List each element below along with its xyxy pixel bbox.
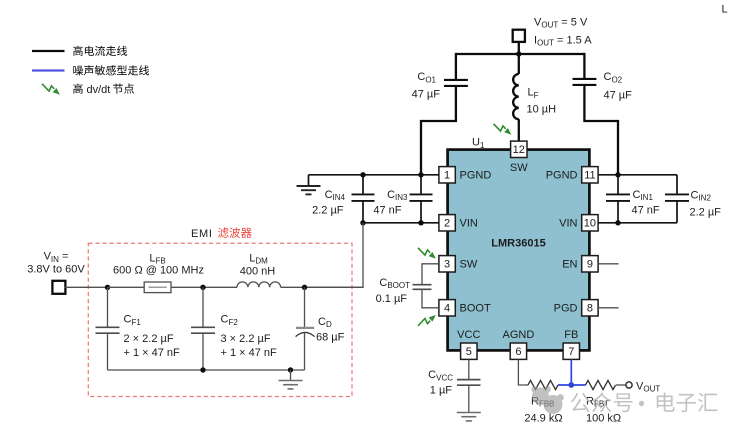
pin 5 box <box>461 343 477 359</box>
legend label 高 dv/dt 节点 <box>73 84 83 94</box>
svg-text:VIN: VIN <box>460 218 478 230</box>
svg-text:SW: SW <box>460 259 478 271</box>
node CF1 top junction <box>105 285 110 290</box>
wire VIN riser from EMI filter <box>305 223 364 287</box>
svg-text:3: 3 <box>444 258 450 270</box>
wire pin 11 PGND rail <box>598 174 677 176</box>
svg-text:dv/dt: dv/dt <box>87 84 111 96</box>
svg-text:47 nF: 47 nF <box>632 205 660 217</box>
node CF2 bottom junction <box>200 367 205 372</box>
capacitor CF2 <box>202 287 204 327</box>
node CIN3 bottom junction <box>418 220 423 225</box>
wire RFBT to VOUT terminal <box>616 384 626 386</box>
wire CO2 top <box>583 53 585 78</box>
svg-text:PGD: PGD <box>554 303 578 315</box>
svg-text:0.1 µF: 0.1 µF <box>376 293 408 305</box>
node VOUT junction <box>516 51 521 56</box>
capacitor CVCC <box>457 379 481 381</box>
wire LFB to CF2 node <box>171 286 237 288</box>
node CIN4 bottom junction <box>360 220 365 225</box>
svg-text:47 µF: 47 µF <box>604 90 633 102</box>
wire CVCC to ground <box>468 385 470 412</box>
ground in EMI filter <box>290 370 292 380</box>
wire pin 1 PGND rail <box>309 174 439 176</box>
high dv/dt arrow at pin 3 SW <box>418 248 436 259</box>
legend high-current trace sample line <box>32 50 65 52</box>
pin 10 box <box>582 215 598 231</box>
node CIN4 top junction <box>360 172 365 177</box>
terminal VOUT open circle <box>626 382 632 388</box>
op-amp U1 LMR36015 body <box>448 150 590 351</box>
wire pin 2 VIN rail <box>363 222 439 224</box>
pin 7 box <box>563 343 579 359</box>
wire pin 8 PGD stub <box>598 307 618 309</box>
pin 9 box <box>582 256 598 272</box>
wire CO2 bottom to PGND rail <box>584 85 618 175</box>
svg-text:PGND: PGND <box>460 170 492 182</box>
inductor LF coil <box>513 74 519 119</box>
wire VIN terminal to filter <box>65 286 108 288</box>
svg-text:10 µH: 10 µH <box>527 104 557 116</box>
svg-text:11: 11 <box>584 169 595 181</box>
legend high dv/dt arrow icon <box>42 84 60 95</box>
node CIN3 top junction <box>418 172 423 177</box>
node CIN1 top junction <box>615 172 620 177</box>
terminal VIN square <box>52 281 65 294</box>
svg-text:2 × 2.2 µF: 2 × 2.2 µF <box>124 333 174 345</box>
svg-text:L: L <box>722 4 728 16</box>
inductor LDM coil <box>237 282 281 287</box>
wire pin 9 EN stub <box>598 263 618 265</box>
svg-text:4: 4 <box>444 302 450 314</box>
svg-text:3 × 2.2 µF: 3 × 2.2 µF <box>221 333 271 345</box>
svg-text:10: 10 <box>584 217 596 229</box>
watermark text <box>571 392 633 412</box>
resistor RFBB <box>528 380 558 389</box>
EMI filter dashed box <box>88 243 352 396</box>
wire VOUT bus <box>456 53 585 55</box>
watermark logo blob <box>531 386 564 414</box>
legend noise-sensitive trace sample line <box>32 69 65 71</box>
svg-text:VIN: VIN <box>559 218 577 230</box>
svg-text:LMR36015: LMR36015 <box>491 237 545 249</box>
svg-text:+ 1 × 47 nF: + 1 × 47 nF <box>124 347 181 359</box>
svg-text:2: 2 <box>444 217 450 229</box>
capacitor CIN2 <box>676 175 678 194</box>
svg-text:AGND: AGND <box>503 329 535 341</box>
wire CO1 top <box>455 53 457 79</box>
svg-text:400 nH: 400 nH <box>240 266 276 278</box>
svg-text:VCC: VCC <box>457 329 480 341</box>
high dv/dt arrow at pin 4 BOOT <box>418 315 436 326</box>
wire pin 10 VIN rail <box>598 222 677 224</box>
svg-text:47 µF: 47 µF <box>412 89 441 101</box>
wire terminal to VOUT bus <box>518 42 520 54</box>
svg-text:EMI: EMI <box>191 228 213 240</box>
capacitor CO2 <box>573 78 597 80</box>
high dv/dt arrow at SW node <box>494 124 512 135</box>
pin 12 box <box>511 141 527 157</box>
terminal VOUT square <box>513 30 525 42</box>
svg-text:1 µF: 1 µF <box>430 385 453 397</box>
svg-text:24.9 kΩ: 24.9 kΩ <box>524 412 562 424</box>
capacitor CD polarized <box>304 287 306 327</box>
svg-text:FB: FB <box>564 329 578 341</box>
node ground tap junction <box>288 367 293 372</box>
capacitor CF1 <box>107 287 109 327</box>
svg-text:6: 6 <box>515 346 521 358</box>
pin 8 box <box>582 300 598 316</box>
pin 4 box <box>439 300 455 316</box>
svg-text:2.2 µF: 2.2 µF <box>312 205 344 217</box>
wire to LFB <box>108 286 145 288</box>
svg-text:5: 5 <box>466 346 472 358</box>
resistor RFBT <box>586 380 616 389</box>
legend label 噪声敏感型走线 <box>73 65 149 75</box>
pin 11 box <box>582 167 598 183</box>
wire FB blue from pin 7 <box>570 360 572 385</box>
svg-text:1: 1 <box>444 169 450 181</box>
svg-text:+ 1 × 47 nF: + 1 × 47 nF <box>221 347 278 359</box>
svg-text:12: 12 <box>513 144 525 156</box>
svg-text:PGND: PGND <box>546 170 578 182</box>
wire pin 5 VCC to CVCC <box>468 360 470 380</box>
svg-text:600 Ω @ 100 MHz: 600 Ω @ 100 MHz <box>113 265 204 277</box>
wire EMI bottom rail <box>108 369 305 371</box>
pin 6 box <box>510 343 526 359</box>
wire pin 6 AGND to RFBB <box>518 360 528 385</box>
pin 3 box <box>439 256 455 272</box>
wire LDM to riser <box>281 286 363 288</box>
svg-text:100 kΩ: 100 kΩ <box>586 412 621 424</box>
capacitor CIN1 <box>617 175 619 194</box>
svg-text:EN: EN <box>562 259 577 271</box>
svg-text:7: 7 <box>568 346 574 358</box>
wire CBOOT to pin 4 BOOT <box>422 289 439 308</box>
wire LF top <box>518 54 520 74</box>
wire LF bottom to pin 12 <box>518 119 520 141</box>
pin 2 box <box>439 215 455 231</box>
svg-text:SW: SW <box>510 162 528 174</box>
node CD top junction <box>302 285 307 290</box>
svg-text:2.2 µF: 2.2 µF <box>690 207 722 219</box>
wire CO1 bottom to PGND rail <box>421 86 456 175</box>
ground at PGND rail <box>308 175 310 186</box>
wire pin 3 SW to CBOOT <box>422 264 439 285</box>
node CF2 top junction <box>200 285 205 290</box>
ground below CVCC <box>457 412 481 414</box>
legend label 高电流走线 <box>73 46 127 56</box>
svg-text:3.8V to 60V: 3.8V to 60V <box>27 264 85 276</box>
node FB junction blue <box>568 382 574 388</box>
svg-text:BOOT: BOOT <box>460 303 491 315</box>
svg-text:9: 9 <box>587 258 593 270</box>
pin 1 box <box>439 167 455 183</box>
svg-text:47 nF: 47 nF <box>373 205 401 217</box>
wire FB blue horizontal <box>558 384 586 386</box>
capacitor CIN3 <box>420 175 422 194</box>
capacitor CO1 <box>444 79 468 81</box>
svg-text:68 µF: 68 µF <box>316 331 345 343</box>
capacitor CIN4 <box>362 175 364 194</box>
capacitor CBOOT <box>413 284 432 286</box>
svg-text:8: 8 <box>587 302 593 314</box>
node CIN1 bottom junction <box>615 220 620 225</box>
ferrite bead LFB <box>144 282 171 293</box>
